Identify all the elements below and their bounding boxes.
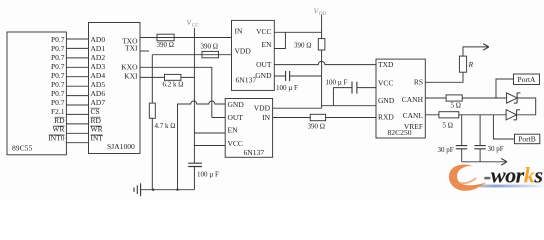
resistor 390ohm R6 on RXD line	[310, 114, 325, 120]
IC SJA1000 body	[89, 23, 141, 154]
svg-text:SJA1000: SJA1000	[107, 142, 135, 151]
svg-text:30 pF: 30 pF	[438, 146, 454, 154]
wire 4.7k vertical from TXI corner to ground bus	[151, 55, 153, 190]
svg-text:KXO: KXO	[121, 63, 138, 72]
svg-text:CC: CC	[192, 24, 199, 29]
svg-text:TXI: TXI	[125, 44, 138, 53]
svg-text:AD5: AD5	[91, 80, 106, 89]
connector PortB box	[515, 134, 540, 144]
svg-text:AD3: AD3	[91, 62, 106, 71]
svg-text:PortB: PortB	[518, 135, 536, 144]
svg-text:OUT: OUT	[256, 60, 272, 69]
svg-text:30 pF: 30 pF	[488, 145, 504, 153]
optocoupler U2 6N137 body	[225, 99, 272, 158]
capacitor 30pF C4 plates	[456, 146, 467, 149]
arrowhead top	[483, 44, 489, 51]
e-works logo	[449, 162, 543, 191]
wire RS to resistor R	[425, 72, 463, 82]
junction dot ground bus right	[176, 189, 178, 191]
svg-text:VCC: VCC	[228, 139, 243, 148]
wire TXI stub	[140, 50, 149, 52]
svg-text:PortA: PortA	[518, 75, 537, 84]
svg-text:CANL: CANL	[403, 111, 424, 120]
svg-text:100 µ F: 100 µ F	[197, 171, 219, 179]
svg-text:P0.7: P0.7	[51, 80, 65, 89]
capacitor 100uF C2 plates	[286, 71, 290, 81]
wire U2 VDD to rail bottom	[273, 107, 322, 109]
capacitor 30pF C5 branch from CANL	[479, 115, 481, 162]
wire TXO to 6N137 U1 IN	[140, 37, 232, 39]
svg-text:P0.7: P0.7	[51, 62, 65, 71]
svg-text:GND: GND	[228, 100, 245, 109]
svg-text:P0.7: P0.7	[51, 89, 65, 98]
wire U1 GND through cap	[274, 75, 321, 77]
svg-text:RS: RS	[414, 77, 423, 86]
wire U1 EN tied to VCC	[274, 32, 285, 48]
junction dot ground bus left	[152, 189, 154, 191]
wire U2 VCC to Vcc rail	[194, 145, 225, 147]
svg-text:390 Ω: 390 Ω	[294, 42, 311, 50]
svg-text:EN: EN	[228, 126, 239, 135]
svg-text:5 Ω: 5 Ω	[451, 101, 461, 109]
svg-text:OUT: OUT	[228, 113, 244, 122]
svg-text:TXD: TXD	[378, 60, 394, 69]
wire PortB tap	[493, 115, 514, 139]
svg-text:IN: IN	[262, 113, 270, 122]
wire 82C250 GND	[322, 105, 376, 107]
svg-text:89C55: 89C55	[12, 144, 32, 153]
IC 89C55 body	[7, 32, 66, 155]
transceiver 82C250 body	[376, 59, 425, 138]
wire KXO to U2 OUT	[140, 67, 225, 117]
svg-text:AD4: AD4	[91, 71, 106, 80]
logo text works	[491, 162, 543, 187]
optocoupler U1 6N137 body	[232, 20, 275, 90]
ground bus	[141, 189, 195, 191]
svg-text:DD: DD	[319, 12, 327, 17]
svg-text:82C250: 82C250	[388, 128, 412, 137]
diode D2 cathode bar	[513, 110, 520, 120]
svg-text:6N137: 6N137	[236, 76, 257, 85]
resistor 390ohm R2 on VDD line	[202, 51, 219, 57]
resistor 5ohm R7 on CANH	[446, 95, 462, 101]
Vcc rail vertical	[193, 28, 195, 190]
svg-text:AD1: AD1	[91, 44, 106, 53]
wire bus 89C55 to SJA1000	[66, 39, 88, 143]
logo hyphen	[484, 177, 490, 180]
arrowhead bus	[501, 159, 507, 166]
wire U2 EN to Vcc rail	[194, 132, 225, 134]
resistor 390ohm R1 on TXO line	[157, 34, 174, 41]
diode D1 cathode bar	[514, 93, 521, 103]
svg-text:P0.7: P0.7	[51, 98, 65, 107]
svg-text:F2.1: F2.1	[51, 107, 65, 116]
svg-text:P0.7: P0.7	[51, 53, 65, 62]
svg-text:P0.7: P0.7	[51, 44, 65, 53]
svg-text:GND: GND	[378, 96, 395, 105]
svg-text:4.7 k Ω: 4.7 k Ω	[155, 122, 176, 130]
wire cap ground bus with arrow	[462, 161, 507, 163]
wire KXI to Vcc rail	[140, 76, 194, 78]
svg-text:works: works	[491, 162, 543, 187]
svg-text:IN: IN	[235, 27, 243, 36]
resistor 4.7kohm R3 vertical	[149, 103, 155, 118]
capacitor 30pF C5 plates	[474, 146, 485, 149]
wire TXI corner to U1 VDD	[152, 54, 231, 56]
svg-text:VDD: VDD	[235, 47, 252, 56]
svg-text:6.2 k Ω: 6.2 k Ω	[163, 81, 184, 89]
wire PortA tap	[496, 79, 514, 98]
wire 82C250 VCC through cap to GND	[333, 88, 376, 106]
svg-text:GND: GND	[255, 71, 272, 80]
connector PortA box	[514, 74, 540, 85]
svg-text:390 Ω: 390 Ω	[308, 123, 325, 131]
Vdd rail vertical with 390 pullup	[321, 15, 323, 109]
svg-text:AD2: AD2	[91, 53, 106, 62]
svg-text:VDD: VDD	[254, 104, 271, 113]
resistor R vertical	[459, 56, 466, 72]
diode D1 TVS on CANH	[507, 93, 517, 103]
wire U1 VCC to Vdd rail	[274, 31, 321, 33]
wire CANL	[425, 114, 506, 116]
89C55 overlines	[49, 117, 65, 135]
svg-text:VCC: VCC	[378, 79, 393, 88]
svg-text:AD6: AD6	[91, 89, 106, 98]
wire diode cathodes joined	[517, 98, 536, 115]
resistor 390ohm R5 vertical on Vdd rail	[318, 39, 325, 50]
svg-text:EN: EN	[262, 40, 273, 49]
SJA1000 overlines	[91, 108, 103, 135]
svg-text:AD7: AD7	[91, 98, 106, 107]
wire U1 OUT to 82C250 TXD with hop	[274, 61, 376, 64]
svg-text:100 µ F: 100 µ F	[276, 84, 298, 92]
svg-text:390 Ω: 390 Ω	[157, 41, 174, 49]
resistor 5ohm R8 on CANL	[439, 112, 459, 118]
capacitor 30pF C4 branch from CANH	[461, 115, 463, 162]
wire R to arrow	[463, 47, 488, 56]
svg-text:AD0: AD0	[91, 35, 106, 44]
svg-text:390 Ω: 390 Ω	[201, 42, 218, 50]
capacitor 100uF C1 on Vcc rail	[188, 163, 202, 166]
svg-text:P0.7: P0.7	[51, 71, 65, 80]
svg-text:5 Ω: 5 Ω	[443, 122, 453, 130]
svg-text:VCC: VCC	[256, 27, 271, 36]
resistor 6.2kohm R4 on KXI line	[165, 74, 181, 80]
diode D2 TVS on CANL	[506, 110, 516, 120]
ground symbol	[134, 183, 141, 196]
svg-text:RXD: RXD	[378, 113, 394, 122]
svg-text:6N137: 6N137	[244, 148, 265, 157]
capacitor 100uF C3 plates	[352, 82, 357, 94]
wire CANH	[425, 97, 506, 99]
logo e swoosh	[449, 164, 487, 190]
wire U2 IN to 82C250 RXD	[273, 117, 376, 119]
svg-text:100 µ F: 100 µ F	[326, 79, 348, 87]
svg-text:KXI: KXI	[124, 72, 138, 81]
wire U2 GND left with hops	[178, 101, 226, 190]
svg-text:R: R	[468, 60, 474, 69]
svg-text:P0.7: P0.7	[51, 35, 65, 44]
svg-text:CANH: CANH	[402, 95, 424, 104]
